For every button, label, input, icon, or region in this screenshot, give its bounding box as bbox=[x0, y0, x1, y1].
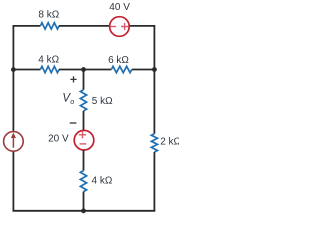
wire right rail lower bbox=[153, 152, 155, 211]
svg-text:4 kΩ: 4 kΩ bbox=[38, 54, 59, 65]
svg-text:20 V: 20 V bbox=[48, 134, 69, 145]
voltage source 20V minus sign bbox=[80, 143, 87, 145]
svg-text:40 V: 40 V bbox=[109, 2, 130, 13]
wire mid-left segment bbox=[13, 69, 40, 71]
voltage source V 20V circle bbox=[74, 130, 94, 150]
wire top-middle segment bbox=[59, 25, 109, 27]
voltage source 20V plus sign bbox=[79, 131, 86, 138]
wire bottom rail bbox=[13, 210, 156, 212]
svg-text:6 kΩ: 6 kΩ bbox=[108, 55, 129, 66]
resistor R 8k zigzag bbox=[40, 23, 59, 29]
node junction mid-right bbox=[152, 67, 157, 72]
svg-text:4 kΩ: 4 kΩ bbox=[92, 176, 113, 187]
wire left rail upper bbox=[12, 25, 14, 131]
plus polarity mark Vo bbox=[70, 76, 76, 82]
voltage source V 40V circle bbox=[110, 17, 130, 37]
resistor R 2k zigzag bbox=[151, 134, 157, 152]
resistor R 4k horizontal zigzag bbox=[40, 66, 59, 72]
wire center branch upper bbox=[83, 70, 85, 90]
wire center branch mid1 bbox=[83, 111, 85, 131]
current source I1 arrow bbox=[12, 137, 14, 148]
wire mid-right segment bbox=[132, 69, 155, 71]
wire top-right segment bbox=[130, 25, 155, 27]
wire center branch lower bbox=[83, 192, 85, 211]
voltage source 40V minus sign bbox=[110, 26, 116, 28]
wire right rail upper bbox=[153, 25, 155, 134]
resistor R 4k vertical zigzag bbox=[80, 171, 86, 192]
svg-text:5 kΩ: 5 kΩ bbox=[92, 96, 113, 107]
resistor R 6k zigzag bbox=[111, 66, 131, 72]
svg-text:2 kΩ: 2 kΩ bbox=[160, 137, 179, 148]
current source I1 circle bbox=[4, 132, 24, 152]
wire top-left segment bbox=[13, 25, 40, 27]
node junction mid-left bbox=[11, 67, 16, 72]
wire left rail lower bbox=[12, 152, 14, 211]
wire mid-center segment bbox=[59, 69, 111, 71]
node junction bottom bbox=[81, 208, 86, 213]
svg-text:o: o bbox=[70, 97, 74, 106]
minus polarity mark Vo bbox=[70, 122, 77, 124]
node junction center bbox=[81, 67, 86, 72]
wire center branch mid2 bbox=[83, 150, 85, 171]
svg-text:8 kΩ: 8 kΩ bbox=[38, 10, 59, 21]
resistor R 5k vertical zigzag bbox=[80, 90, 86, 111]
voltage source 40V plus sign bbox=[121, 23, 128, 30]
